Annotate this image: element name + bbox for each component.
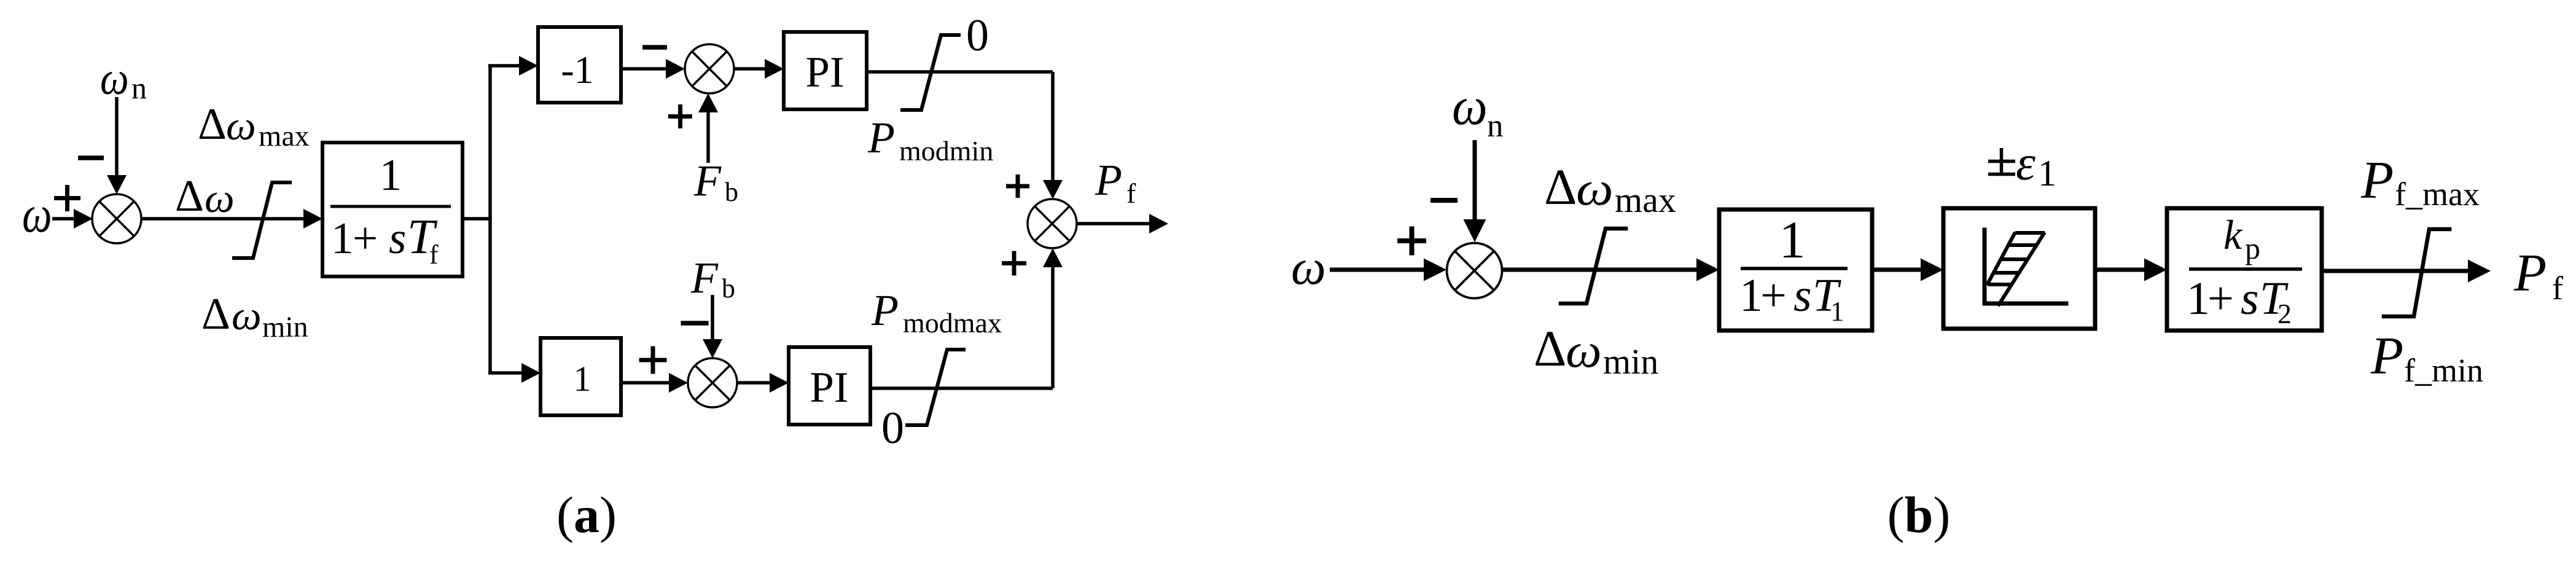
svg-text:P: P bbox=[2370, 326, 2403, 385]
svg-text:Δ: Δ bbox=[201, 289, 230, 339]
svg-text:PI: PI bbox=[805, 49, 844, 96]
wire S1 to filter block bbox=[141, 209, 322, 229]
wire corner down to S3 bbox=[1043, 72, 1063, 199]
node omega input label (b) bbox=[1291, 239, 1326, 295]
svg-text:ω: ω bbox=[232, 292, 262, 339]
svg-text:P: P bbox=[871, 286, 899, 335]
rate limiter symbol L3 with lower limit 0 bbox=[907, 350, 964, 425]
wire Fb bottom to S4 bbox=[703, 295, 722, 358]
label P_modmin bbox=[867, 113, 993, 166]
svg-text:1: 1 bbox=[2038, 153, 2056, 194]
wire lag to dead-band block bbox=[1872, 259, 1943, 281]
gain block 1 bbox=[541, 338, 621, 415]
dead-band hatched band bbox=[1987, 232, 2045, 306]
plus sign at S4 input bbox=[639, 347, 667, 374]
svg-text:s: s bbox=[1793, 270, 1812, 321]
svg-text:P: P bbox=[2513, 243, 2547, 302]
wire gain 1 to summing junction S4 bbox=[621, 373, 688, 393]
rate limiter symbol L5 bbox=[2384, 229, 2449, 316]
svg-text:1: 1 bbox=[331, 213, 354, 263]
summing junction S4 bbox=[688, 358, 737, 407]
node omega input label (a) bbox=[22, 185, 52, 243]
filter block 1/(1+sTf) bbox=[322, 143, 463, 276]
caption (b) bbox=[1887, 487, 1951, 544]
svg-text:+: + bbox=[353, 213, 378, 263]
svg-text:n: n bbox=[131, 71, 147, 105]
wire corner up to S3 bbox=[1043, 248, 1063, 388]
svg-text:n: n bbox=[1487, 108, 1504, 144]
wire PI top to corner bbox=[867, 70, 1053, 74]
svg-text:max: max bbox=[259, 120, 310, 152]
svg-text:P: P bbox=[867, 113, 895, 162]
svg-text:0: 0 bbox=[966, 10, 989, 61]
label P_modmax bbox=[871, 286, 1002, 339]
label Delta-omega-min (a) bbox=[201, 289, 308, 343]
wire Fb to S2 bbox=[698, 93, 718, 163]
svg-text:P: P bbox=[1095, 155, 1122, 205]
svg-text:ω: ω bbox=[1576, 162, 1614, 216]
label 0 lower limit bottom bbox=[881, 403, 904, 453]
label P_f_min bbox=[2370, 326, 2483, 389]
rate limiter symbol L1 on Delta-omega wire bbox=[234, 182, 290, 258]
svg-text:+: + bbox=[1760, 270, 1787, 321]
svg-text:f: f bbox=[1126, 178, 1136, 209]
summing junction S2 bbox=[685, 44, 734, 93]
svg-text:f: f bbox=[429, 240, 439, 270]
wire branch to gain 1 bbox=[488, 363, 541, 383]
rate limiter symbol L2 with upper limit 0 bbox=[902, 35, 959, 110]
label P_f_max bbox=[2360, 150, 2480, 213]
svg-text:1: 1 bbox=[574, 359, 591, 399]
minus sign at S4 Fb input bbox=[681, 321, 709, 326]
label Pf output (b) bbox=[2513, 243, 2563, 307]
svg-text:Δ: Δ bbox=[1544, 159, 1577, 215]
plus sign at S2 Fb input bbox=[668, 104, 692, 128]
lag block 1/(1+sT1) bbox=[1719, 210, 1872, 331]
svg-text:F: F bbox=[690, 253, 719, 302]
branch wire up bbox=[488, 66, 492, 219]
wire branch to gain -1 bbox=[488, 56, 538, 76]
wire S4 to PI block bottom bbox=[737, 373, 789, 393]
svg-text:ω: ω bbox=[100, 53, 129, 104]
svg-text:PI: PI bbox=[810, 364, 848, 412]
svg-text:ε: ε bbox=[2016, 135, 2035, 190]
svg-text:1: 1 bbox=[1739, 270, 1763, 321]
gain block -1 bbox=[538, 27, 621, 103]
wire S2 to PI block top bbox=[734, 59, 784, 79]
minus sign at S2 input bbox=[642, 45, 667, 50]
svg-text:Δ: Δ bbox=[198, 99, 227, 149]
plus sign at S5 input bbox=[1397, 227, 1426, 256]
plus sign at S3 bottom input bbox=[1002, 251, 1026, 276]
label Fb bottom bbox=[690, 253, 735, 304]
svg-text:ω: ω bbox=[226, 103, 256, 149]
node Delta-omega label bbox=[175, 171, 235, 221]
minus sign at S5 omega_n input bbox=[1430, 198, 1458, 203]
summing junction S5 bbox=[1447, 243, 1502, 299]
svg-text:p: p bbox=[2245, 231, 2260, 265]
dead-band axis bbox=[1985, 230, 2066, 304]
svg-text:Δ: Δ bbox=[1534, 320, 1566, 377]
svg-text:modmin: modmin bbox=[899, 135, 993, 166]
svg-text:ω: ω bbox=[1452, 76, 1488, 136]
svg-text:s: s bbox=[2241, 273, 2259, 324]
wire omega to summing junction S1 bbox=[52, 209, 93, 229]
wire kp block to Pf output (b) bbox=[2322, 260, 2491, 283]
PI controller block bottom bbox=[789, 347, 870, 425]
label Fb top bbox=[693, 156, 738, 207]
kp block kp/(1+sT2) bbox=[2167, 208, 2322, 331]
wire S5 to lag block bbox=[1502, 259, 1719, 281]
svg-text:F: F bbox=[693, 156, 722, 205]
summing junction S1 bbox=[92, 194, 141, 243]
svg-text:1: 1 bbox=[2187, 273, 2210, 324]
svg-text:(b): (b) bbox=[1887, 487, 1951, 544]
svg-text:ω: ω bbox=[205, 175, 235, 221]
svg-text:k: k bbox=[2223, 211, 2243, 258]
svg-text:-1: -1 bbox=[561, 48, 593, 92]
plus sign at S1 input bbox=[54, 185, 80, 211]
wire filter to branch node bbox=[463, 217, 490, 221]
svg-text:b: b bbox=[725, 177, 738, 207]
label 0 upper limit top bbox=[966, 10, 989, 61]
label Delta-omega-min (b) bbox=[1534, 320, 1658, 382]
svg-text:ω: ω bbox=[1291, 239, 1326, 295]
caption (a) bbox=[556, 487, 617, 544]
svg-text:ω: ω bbox=[1566, 323, 1602, 377]
wire omega_n to S5 bbox=[1464, 140, 1486, 242]
svg-text:ω: ω bbox=[22, 185, 52, 243]
svg-text:1: 1 bbox=[380, 150, 402, 200]
PI controller block top bbox=[784, 32, 867, 109]
svg-text:s: s bbox=[389, 213, 406, 263]
svg-text:min: min bbox=[262, 311, 308, 343]
svg-text:(a): (a) bbox=[556, 487, 617, 544]
svg-text:1: 1 bbox=[1779, 210, 1806, 269]
svg-text:P: P bbox=[2360, 150, 2394, 210]
wire omega_n to S1 bbox=[107, 97, 127, 194]
wire dead-band to kp block bbox=[2095, 259, 2167, 281]
wire -1 to summing junction S2 bbox=[621, 59, 685, 79]
svg-text:Δ: Δ bbox=[175, 171, 204, 221]
rate limiter symbol L4 bbox=[1561, 229, 1626, 304]
wire PI bottom to corner bbox=[870, 386, 1053, 390]
wire S3 to Pf output bbox=[1077, 214, 1168, 233]
wire omega to summing junction S5 bbox=[1330, 259, 1446, 281]
svg-text:2: 2 bbox=[2277, 298, 2292, 329]
svg-text:0: 0 bbox=[881, 403, 904, 453]
node omega_n label (a) bbox=[100, 53, 147, 105]
svg-text:+: + bbox=[2207, 273, 2234, 324]
label Delta-omega-max (a) bbox=[198, 99, 310, 152]
node omega_n label (b) bbox=[1452, 76, 1504, 144]
minus sign at S1 omega_n input bbox=[78, 155, 104, 160]
svg-text:modmax: modmax bbox=[903, 307, 1002, 339]
svg-text:max: max bbox=[1615, 180, 1676, 220]
svg-text:min: min bbox=[1603, 342, 1658, 382]
plus sign at S3 top input bbox=[1006, 174, 1029, 198]
summing junction S3 output bbox=[1028, 199, 1077, 248]
svg-text:1: 1 bbox=[1830, 296, 1844, 327]
svg-text:f_min: f_min bbox=[2404, 352, 2483, 389]
svg-text:b: b bbox=[722, 273, 735, 304]
branch wire down bbox=[488, 219, 492, 373]
label Delta-omega-max (b) bbox=[1544, 159, 1676, 220]
label Pf output (a) bbox=[1095, 155, 1136, 209]
dead-band block bbox=[1943, 208, 2095, 329]
label plus-minus epsilon1 bbox=[1988, 135, 2056, 194]
svg-text:f: f bbox=[2552, 270, 2563, 307]
svg-text:f_max: f_max bbox=[2395, 176, 2480, 213]
